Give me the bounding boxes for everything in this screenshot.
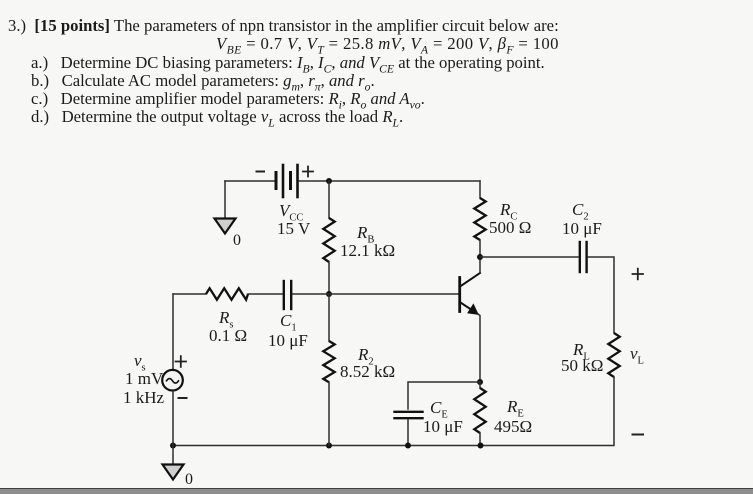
value 50 kOhm [561,356,603,376]
capacitor C1 [284,281,291,309]
source plus sign [176,356,187,367]
label RB [357,223,374,243]
wire collector up to node [479,257,481,273]
resistor RE [474,388,485,433]
battery VCC [276,165,298,197]
ground 0 (top) [215,219,242,250]
label C2 [572,200,589,220]
wire bottom node to ground [172,446,174,465]
RL plus terminal sign [633,269,644,280]
label R2 [358,345,374,365]
bottom page-edge band [0,488,753,494]
wire Rs to C1 [248,293,282,295]
node junction base wire / RB [326,291,332,297]
node junction bottom R2 [326,443,332,449]
problem statement text [8,16,559,36]
wire left rail upper [172,294,174,370]
wire top-left from ground branch to battery minus plate [225,180,274,182]
wire emitter corner and down [478,314,481,382]
label VCC [279,201,303,221]
wire RC rail upper [479,181,481,198]
source minus sign [179,397,187,399]
wire RB to base node [328,262,330,294]
label RE [507,397,524,417]
wire left corner to Rs [173,293,206,295]
node junction bottom RE [478,443,484,449]
resistor RC [474,198,485,240]
capacitor CE [395,412,423,418]
value 8.52 kOhm [340,362,395,382]
wire RC to collector node [479,240,481,257]
resistor R2 [323,341,334,382]
value 10 uF (CE) [423,417,463,437]
label RL [573,340,590,360]
label RC [500,200,517,220]
capacitor C2 [580,242,587,272]
resistor Rs [206,288,248,299]
wire C2 to right rail corner [588,257,614,333]
node junction collector [477,254,483,260]
wire RE upper stub [479,382,481,388]
transistor Q1 (npn) [460,273,480,314]
wire battery plus to RC branch (top rail) [299,180,480,182]
svg-text:0: 0 [185,471,193,488]
label C1 [280,311,297,331]
value 15 V [277,219,310,239]
value 495 Ohm [494,417,532,437]
value 1 mV [125,369,163,389]
source vs (ac) [162,370,183,391]
wire CE to bottom rail [407,420,409,446]
label CE [430,398,448,418]
node junction top of RB [326,178,332,184]
value 500 Ohm [489,218,531,238]
ground 0 (bottom) [163,465,194,489]
wire C1 to base [293,293,458,295]
value 10 uF (C2) [562,219,602,239]
wire ground branch vertical [224,181,226,218]
svg-text:0: 0 [233,232,241,249]
node junction emitter [477,379,483,385]
node junction bottom left [170,443,176,449]
battery plus sign [303,167,313,177]
label vL [630,344,644,364]
wire RL to bottom rail [481,377,615,446]
value 12.1 kOhm [340,241,395,261]
wire bottom rail [173,445,481,447]
wire source to bottom node [172,391,174,446]
wire R2 to bottom rail [328,382,330,445]
resistor RL [608,333,619,377]
battery minus sign [257,171,265,173]
value 0.1 Ohm [209,326,247,346]
resistor RB [323,218,334,262]
wire RB rail upper [328,181,330,218]
wire R2 rail upper [328,294,330,341]
RL minus terminal sign [633,434,644,436]
label vs [134,351,146,371]
wire RE to bottom rail [479,433,481,446]
value 1 kHz [123,388,164,408]
value 10 uF (C1) [268,331,308,351]
wire emitter node to CE branch [408,382,480,409]
node junction bottom CE [405,443,411,449]
wire collector node to C2 [480,256,578,258]
label Rs [219,308,234,328]
